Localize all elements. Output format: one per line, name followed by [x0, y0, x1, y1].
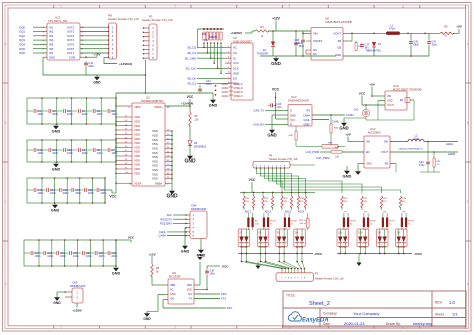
svg-text:GND: GND	[49, 55, 55, 59]
svg-text:GND: GND	[387, 99, 393, 102]
svg-text:100n: 100n	[206, 83, 212, 86]
svg-text:+12VIGN: +12VIGN	[119, 62, 133, 66]
svg-text:-IVCC: -IVCC	[314, 252, 323, 256]
svg-text:+12VIGN: +12VIGN	[181, 101, 193, 105]
svg-text:P2: P2	[315, 272, 319, 276]
svg-text:RS: RS	[307, 110, 311, 113]
svg-text:TH: TH	[402, 211, 405, 213]
svg-text:SD_CLK: SD_CLK	[186, 66, 197, 70]
svg-text:U9: U9	[172, 271, 176, 275]
svg-text:VSS: VSS	[152, 177, 158, 181]
svg-text:IN2: IN2	[49, 30, 54, 34]
svg-text:GND: GND	[233, 71, 239, 75]
svg-text:GND: GND	[52, 167, 61, 171]
svg-text:VCC: VCC	[109, 195, 117, 199]
svg-text:VIN: VIN	[366, 141, 370, 144]
svg-text:OUT5: OUT5	[67, 43, 75, 47]
svg-text:CB: CB	[337, 46, 341, 50]
svg-text:LCD_PWM: LCD_PWM	[306, 150, 320, 154]
svg-text:GND: GND	[343, 173, 352, 178]
svg-text:REV:: REV:	[435, 301, 443, 305]
svg-text:R47: R47	[335, 146, 340, 149]
svg-text:100n: 100n	[47, 254, 53, 258]
svg-text:GND1: GND1	[222, 83, 230, 86]
svg-text:VOUT: VOUT	[387, 104, 394, 107]
svg-text:+12BV: +12BV	[72, 309, 82, 313]
svg-text:100n: 100n	[50, 191, 56, 195]
svg-text:KRX: KRX	[221, 292, 227, 296]
svg-text:+5V: +5V	[369, 83, 376, 87]
svg-text:R: R	[290, 124, 292, 127]
svg-text:IN1: IN1	[49, 25, 54, 29]
svg-text:CEN: CEN	[187, 284, 192, 287]
svg-text:PD35: PD35	[350, 221, 356, 223]
svg-text:LEDB: LEDB	[448, 152, 455, 156]
svg-text:1: 1	[60, 5, 62, 9]
svg-text:Header-Female 2.54_1x8: Header-Female 2.54_1x8	[269, 158, 298, 161]
svg-text:OUT2: OUT2	[67, 30, 75, 34]
svg-text:TH: TH	[364, 211, 367, 213]
svg-text:VCC: VCC	[290, 119, 295, 122]
svg-text:GND: GND	[181, 249, 190, 253]
svg-text:VOUT: VOUT	[334, 31, 342, 35]
svg-text:DQ6: DQ6	[19, 51, 25, 55]
svg-text:CAN_RX: CAN_RX	[253, 123, 264, 127]
svg-text:BAV99: BAV99	[398, 246, 406, 249]
svg-text:ON/OFF: ON/OFF	[313, 40, 323, 43]
svg-text:IN4: IN4	[49, 38, 54, 42]
svg-text:OUT7: OUT7	[67, 51, 75, 55]
svg-text:CANH: CANH	[346, 113, 354, 117]
svg-text:SD_D1: SD_D1	[187, 81, 196, 85]
svg-text:220n: 220n	[88, 65, 94, 68]
svg-text:ADC2: ADC2	[265, 210, 272, 213]
svg-text:OUT3: OUT3	[67, 34, 75, 38]
svg-text:DO: DO	[233, 77, 237, 81]
svg-text:GND: GND	[143, 317, 151, 321]
svg-text:SD_D3: SD_D3	[187, 51, 196, 55]
svg-text:SW: SW	[384, 141, 389, 144]
svg-text:TX: TX	[189, 298, 193, 301]
svg-text:SD_CMD: SD_CMD	[185, 56, 196, 60]
svg-text:MC33290: MC33290	[169, 275, 181, 279]
svg-text:CANH: CANH	[158, 234, 166, 238]
svg-text:PD36: PD36	[370, 221, 376, 223]
svg-text:BAV99: BAV99	[339, 246, 347, 249]
svg-text:Your Company: Your Company	[353, 311, 379, 316]
svg-text:10n: 10n	[364, 47, 369, 50]
svg-text:VBB: VBB	[170, 284, 175, 287]
svg-text:Header-Female 2.54_1x8: Header-Female 2.54_1x8	[315, 277, 344, 280]
svg-text:KTX: KTX	[221, 297, 226, 301]
svg-text:100n: 100n	[60, 254, 66, 258]
svg-text:GND: GND	[335, 53, 341, 57]
svg-text:VIN: VIN	[387, 95, 391, 98]
svg-text:100n: 100n	[97, 112, 103, 116]
svg-text:GND: GND	[112, 271, 121, 275]
svg-text:SHIELD: SHIELD	[234, 83, 243, 86]
svg-text:EN: EN	[366, 151, 370, 154]
svg-text:R28: R28	[202, 34, 207, 36]
svg-text:P8: P8	[108, 14, 112, 18]
svg-text:RS232TX: RS232TX	[160, 217, 172, 221]
svg-text:PD37: PD37	[389, 221, 395, 223]
svg-text:GND: GND	[51, 208, 60, 212]
svg-text:U10: U10	[393, 84, 399, 88]
svg-text:CANL: CANL	[303, 119, 310, 122]
svg-text:U13: U13	[291, 95, 297, 99]
svg-text:+12V: +12V	[272, 17, 281, 21]
svg-text:SCK: SCK	[233, 66, 239, 70]
svg-text:TH: TH	[383, 211, 386, 213]
svg-text:BAV99: BAV99	[296, 246, 304, 249]
svg-text:Klim: Klim	[167, 213, 173, 217]
svg-text:GND2: GND2	[222, 87, 230, 90]
svg-text:P4: P4	[269, 153, 273, 157]
svg-text:GND: GND	[339, 125, 348, 130]
svg-text:GND: GND	[184, 158, 196, 164]
svg-text:RS232RX: RS232RX	[160, 222, 172, 226]
svg-text:+12V: +12V	[148, 252, 156, 256]
svg-text:VCC: VCC	[187, 95, 194, 99]
svg-text:VDDA: VDDA	[134, 181, 142, 185]
svg-text:PD38: PD38	[408, 221, 414, 223]
svg-text:100n: 100n	[82, 151, 88, 155]
svg-text:CS: CS	[233, 51, 237, 55]
svg-text:COM: COM	[69, 55, 76, 59]
svg-text:NC: NC	[313, 52, 317, 56]
svg-text:VCC: VCC	[359, 92, 366, 96]
svg-text:VSSA: VSSA	[155, 181, 162, 185]
svg-text:100n: 100n	[37, 151, 43, 155]
svg-text:100n: 100n	[99, 254, 105, 258]
svg-text:BAV99: BAV99	[240, 246, 248, 249]
svg-text:FB: FB	[338, 39, 342, 43]
svg-text:-IVCC: -IVCC	[414, 252, 423, 256]
svg-text:MBRA340T3G: MBRA340T3G	[366, 50, 381, 53]
svg-text:100n: 100n	[63, 191, 69, 195]
svg-text:U12: U12	[370, 127, 376, 131]
svg-text:100u: 100u	[298, 45, 304, 48]
svg-text:100n: 100n	[100, 191, 106, 195]
svg-text:sharky.dog: sharky.dog	[413, 321, 432, 326]
svg-text:SD_D2: SD_D2	[187, 46, 196, 50]
svg-text:GND: GND	[271, 61, 281, 66]
svg-text:SD_D0: SD_D0	[187, 77, 196, 81]
svg-text:ADC1: ADC1	[245, 210, 252, 213]
svg-text:4: 4	[402, 5, 404, 9]
svg-text:Header-Female 2.54_1x8: Header-Female 2.54_1x8	[142, 18, 173, 22]
svg-text:VREF+: VREF+	[154, 105, 163, 109]
svg-text:BAV99: BAV99	[278, 246, 286, 249]
svg-text:100n: 100n	[97, 151, 103, 155]
svg-text:100n: 100n	[34, 254, 40, 258]
svg-text:LEDA: LEDA	[446, 142, 453, 146]
svg-text:P1: P1	[149, 15, 153, 19]
svg-text:VCC: VCC	[222, 265, 229, 269]
svg-text:OUT4: OUT4	[67, 38, 75, 42]
svg-text:100n: 100n	[37, 112, 43, 116]
svg-text:1/1: 1/1	[452, 312, 458, 317]
svg-text:GND: GND	[267, 132, 276, 137]
svg-text:SHIELD: SHIELD	[234, 87, 243, 90]
svg-text:VOUT: VOUT	[381, 151, 388, 154]
svg-text:100n: 100n	[210, 273, 216, 276]
svg-text:+12V: +12V	[93, 52, 100, 56]
svg-text:OUT6: OUT6	[67, 47, 75, 51]
svg-text:Klim: Klim	[227, 306, 233, 310]
svg-text:DF508V-02P: DF508V-02P	[70, 284, 86, 288]
svg-text:ADC4: ADC4	[298, 210, 305, 213]
svg-text:IN5: IN5	[49, 43, 54, 47]
svg-text:ADC3: ADC3	[285, 210, 292, 213]
svg-text:1: 1	[60, 326, 62, 330]
svg-text:GND: GND	[366, 163, 372, 166]
svg-text:D: D	[4, 282, 7, 286]
svg-text:1.0: 1.0	[449, 300, 455, 305]
svg-text:VREF: VREF	[303, 124, 310, 127]
svg-text:D10: D10	[358, 233, 363, 235]
svg-text:CANL: CANL	[332, 120, 340, 124]
svg-text:CAN_TX: CAN_TX	[253, 108, 264, 112]
svg-text:100n: 100n	[431, 44, 437, 47]
svg-text:+5V: +5V	[345, 133, 352, 137]
svg-text:LM2576M 5.0/NOPB: LM2576M 5.0/NOPB	[325, 20, 352, 24]
svg-text:100n: 100n	[37, 191, 43, 195]
svg-text:CN3: CN3	[72, 281, 78, 285]
svg-text:BAV99: BAV99	[259, 246, 267, 249]
svg-text:VDD: VDD	[134, 171, 140, 175]
svg-text:GND: GND	[53, 301, 61, 305]
svg-text:EP: EP	[400, 99, 404, 102]
svg-text:100n: 100n	[73, 254, 79, 258]
svg-text:C38005C21MGNP(ACTU: C38005C21MGNP(ACTU	[398, 147, 423, 150]
svg-text:IN3: IN3	[49, 34, 54, 38]
svg-text:GND4: GND4	[222, 95, 230, 98]
svg-text:Drawn By:: Drawn By:	[386, 322, 401, 326]
svg-text:TPL7407L_DR: TPL7407L_DR	[48, 19, 67, 23]
svg-text:GND: GND	[290, 114, 296, 117]
svg-text:VIN: VIN	[313, 31, 318, 35]
svg-text:TVS01RR: TVS01RR	[257, 52, 268, 55]
svg-text:3: 3	[288, 5, 290, 9]
svg-text:IN7: IN7	[49, 51, 54, 55]
svg-text:RX: RX	[189, 293, 193, 296]
svg-text:CANH: CANH	[303, 114, 310, 117]
svg-text:GND: GND	[170, 293, 176, 296]
svg-text:C41: C41	[354, 110, 359, 112]
svg-text:DF508V-06P: DF508V-06P	[191, 207, 207, 211]
svg-text:NC: NC	[170, 289, 174, 292]
svg-text:100n: 100n	[111, 112, 117, 116]
svg-text:C: C	[467, 200, 470, 204]
svg-text:C49 1u: C49 1u	[299, 223, 307, 225]
svg-text:R4: R4	[260, 25, 264, 29]
svg-text:+5V: +5V	[456, 25, 463, 29]
svg-text:D: D	[467, 282, 470, 286]
svg-text:100n: 100n	[82, 112, 88, 116]
svg-text:SHIELD: SHIELD	[234, 95, 243, 98]
svg-text:TITLE:: TITLE:	[286, 294, 296, 298]
svg-text:Company:: Company:	[323, 312, 338, 316]
svg-text:100n: 100n	[111, 151, 117, 155]
svg-text:R29R30: R29R30	[209, 37, 218, 39]
svg-text:BAV99: BAV99	[379, 246, 387, 249]
svg-text:BAV99: BAV99	[359, 246, 367, 249]
svg-text:U2: U2	[146, 96, 150, 100]
svg-text:100n: 100n	[67, 112, 73, 116]
svg-text:2020-01-23: 2020-01-23	[344, 321, 365, 326]
svg-text:IN6: IN6	[49, 47, 54, 51]
svg-text:VCC: VCC	[128, 236, 135, 240]
svg-text:+12(BV): +12(BV)	[230, 31, 242, 35]
svg-text:GND: GND	[197, 253, 205, 257]
svg-text:C: C	[4, 200, 7, 204]
svg-text:GND3: GND3	[222, 91, 230, 94]
svg-text:2: 2	[174, 326, 176, 330]
svg-text:EasyEDA: EasyEDA	[302, 318, 329, 324]
svg-text:FB: FB	[385, 163, 389, 166]
svg-text:100n: 100n	[67, 151, 73, 155]
svg-text:NC: NC	[313, 48, 317, 52]
svg-text:100n: 100n	[52, 151, 58, 155]
svg-text:VDD: VDD	[187, 289, 192, 292]
svg-text:100n: 100n	[75, 191, 81, 195]
svg-text:PD45: PD45	[270, 221, 276, 223]
svg-text:68uF: 68uF	[413, 44, 419, 47]
svg-text:47uH: 47uH	[389, 28, 395, 31]
svg-text:100n: 100n	[52, 112, 58, 116]
svg-text:MIC2289C: MIC2289C	[368, 131, 381, 135]
svg-text:VCC: VCC	[233, 61, 239, 65]
svg-text:BZV55B33: BZV55B33	[194, 146, 207, 149]
svg-text:OUT1: OUT1	[67, 25, 75, 29]
svg-text:D: D	[290, 110, 292, 113]
svg-text:VBAT: VBAT	[134, 105, 141, 109]
svg-text:100u: 100u	[295, 42, 301, 45]
svg-text:STM32F429BIT6U: STM32F429BIT6U	[141, 99, 163, 103]
svg-text:Sheet:: Sheet:	[435, 312, 445, 316]
svg-text:2: 2	[174, 5, 176, 9]
svg-text:DI: DI	[233, 56, 236, 60]
svg-text:PD46: PD46	[291, 221, 297, 223]
svg-text:VCC: VCC	[249, 178, 256, 182]
svg-text:TH: TH	[344, 211, 347, 213]
svg-text:GND: GND	[93, 80, 101, 84]
svg-text:SN65HVD230DR: SN65HVD230DR	[288, 99, 309, 103]
svg-text:GND: GND	[166, 193, 178, 199]
svg-text:100n: 100n	[86, 254, 92, 258]
svg-text:R12 1k: R12 1k	[299, 220, 307, 222]
svg-text:Sheet_2: Sheet_2	[309, 301, 330, 307]
svg-text:VCC: VCC	[272, 88, 280, 92]
svg-text:CN4: CN4	[191, 204, 197, 208]
svg-text:NC: NC	[233, 46, 237, 50]
svg-text:SHIELD: SHIELD	[234, 91, 243, 94]
svg-text:100n: 100n	[277, 106, 283, 109]
svg-text:100n: 100n	[88, 191, 94, 195]
svg-text:10uH: 10uH	[413, 138, 419, 140]
svg-text:Header-Female 2.54_1x8: Header-Female 2.54_1x8	[108, 17, 139, 21]
svg-text:270p: 270p	[419, 164, 425, 167]
svg-text:240n: 240n	[111, 254, 117, 258]
svg-text:CANL: CANL	[159, 230, 167, 234]
svg-text:GND: GND	[209, 103, 218, 107]
svg-text:GND: GND	[52, 129, 61, 133]
svg-text:ISO: ISO	[170, 298, 174, 301]
svg-text:LCD_PWM: LCD_PWM	[316, 156, 330, 160]
svg-text:R6: R6	[444, 24, 448, 28]
